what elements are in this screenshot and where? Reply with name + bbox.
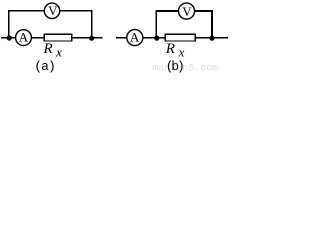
- svg-text:V: V: [48, 3, 58, 18]
- svg-text:x: x: [178, 44, 185, 59]
- svg-text:(a): (a): [34, 59, 55, 74]
- svg-text:R: R: [165, 41, 175, 57]
- svg-text:manfen5.com: manfen5.com: [152, 62, 218, 74]
- svg-text:V: V: [182, 4, 192, 19]
- svg-text:A: A: [19, 29, 29, 44]
- svg-text:(b): (b): [166, 59, 183, 74]
- svg-text:R: R: [43, 41, 53, 57]
- svg-text:A: A: [130, 29, 140, 44]
- svg-text:x: x: [55, 45, 62, 60]
